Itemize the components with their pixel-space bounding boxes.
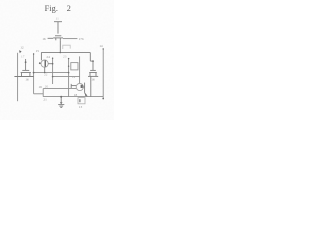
svg-text:21: 21 [43, 98, 47, 102]
svg-text:2: 2 [67, 4, 71, 13]
svg-text:12: 12 [20, 46, 24, 50]
svg-text:16: 16 [91, 78, 95, 82]
svg-text:24: 24 [46, 55, 50, 59]
svg-text:13: 13 [79, 105, 83, 109]
svg-text:14: 14 [99, 44, 103, 48]
svg-text:19: 19 [72, 75, 76, 79]
svg-text:16: 16 [38, 85, 42, 89]
svg-text:23: 23 [63, 55, 67, 59]
svg-text:17b: 17b [79, 37, 84, 41]
svg-text:16: 16 [42, 37, 46, 41]
svg-text:20: 20 [45, 84, 49, 88]
svg-text:18: 18 [74, 93, 78, 97]
svg-text:15: 15 [36, 49, 40, 53]
svg-text:Fig.: Fig. [45, 4, 58, 13]
svg-text:11: 11 [56, 17, 60, 21]
svg-text:22: 22 [44, 72, 48, 76]
svg-text:17: 17 [21, 54, 25, 58]
svg-text:16: 16 [25, 77, 29, 81]
